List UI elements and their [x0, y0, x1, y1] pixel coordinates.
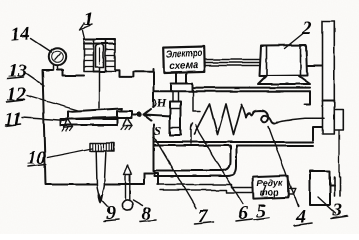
thin line down to damper 3	[338, 130, 340, 177]
leader line label 9 to needle tip	[99, 193, 108, 207]
leader line label 14 to gauge	[31, 39, 52, 53]
hanger line	[193, 91, 200, 111]
coil (element 1)	[84, 39, 115, 44]
leader line label 12 to platform	[27, 96, 79, 111]
coil center rod	[96, 44, 104, 67]
spring end curl	[246, 111, 277, 124]
редуктор box	[253, 176, 289, 199]
right pivot support	[123, 118, 132, 126]
small box right of column	[334, 109, 343, 130]
leader line label 1 to coil	[83, 30, 85, 39]
rod stem down to platform	[99, 67, 101, 108]
shaft lines box->motor	[205, 60, 262, 66]
duct from frame down-left	[155, 146, 237, 177]
leader line label 10 to bolt head	[48, 149, 93, 158]
label underline strokes	[5, 78, 348, 226]
pressure gauge 14	[49, 48, 66, 65]
rod with dot and fork to magnet	[132, 114, 137, 116]
platform 12 (beam)	[68, 109, 122, 120]
pipe to reducer	[157, 185, 253, 193]
needle 9	[96, 151, 106, 203]
leader line label 8 to pin	[134, 200, 144, 206]
damper rect right of platform	[117, 111, 132, 118]
leader line label 6 to spring anchor	[196, 125, 244, 205]
leader line label 2 to motor	[285, 34, 304, 49]
leader line label 13 to body	[25, 73, 45, 87]
leader line label 5 to reducer	[263, 187, 267, 197]
electro box pedestal	[177, 72, 187, 83]
left pivot support 11	[64, 119, 73, 127]
right tall column	[323, 21, 335, 134]
magnet bar N-S	[173, 91, 179, 101]
leader line label 11 to pivot	[22, 118, 67, 121]
bolt 10	[90, 143, 114, 151]
spring	[194, 104, 246, 135]
leader line label 3 to box	[318, 197, 336, 214]
leader line label 7 to frame wall	[154, 137, 196, 209]
pin 8	[124, 166, 132, 175]
frame right wall pieces	[305, 91, 311, 104]
frame around spring: top lines	[154, 88, 311, 92]
leader tick of label 1	[80, 23, 92, 30]
электро схема box	[163, 46, 205, 72]
leader line label 4 to spring knot	[269, 127, 299, 208]
frame bottom double line	[154, 142, 314, 146]
main body 13 left outline	[43, 69, 159, 185]
motor 2	[260, 45, 308, 76]
element 3 box and damper	[310, 171, 330, 205]
spring post	[191, 124, 193, 144]
